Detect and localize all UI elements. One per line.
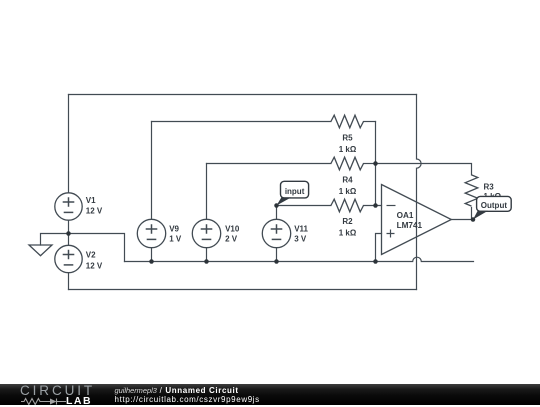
ground symbol	[29, 245, 52, 256]
resistor R5 body	[331, 115, 364, 128]
voltage source V1 body	[55, 193, 82, 220]
svg-text:R3: R3	[484, 182, 495, 191]
node V1-V2 junction	[66, 231, 71, 236]
wire R5 left lead	[152, 121, 331, 123]
CircuitLab logo schematic line (resistor + diode)	[21, 397, 67, 405]
wire R2 left lead	[277, 205, 331, 207]
svg-text:LM741: LM741	[397, 221, 423, 230]
wire R5 right lead	[364, 121, 376, 123]
wire bottom supply rail	[69, 289, 417, 291]
footer author / title line	[115, 386, 239, 395]
wire non-inverting input to rail	[376, 234, 382, 262]
voltage source V2 body	[55, 245, 82, 272]
wire V10 top lead	[206, 164, 208, 220]
voltage source V10 body	[192, 219, 220, 247]
node output junction	[471, 217, 476, 222]
wire V11 bottom lead	[276, 248, 278, 262]
flag input	[277, 181, 309, 205]
wire V9 top lead	[151, 122, 153, 220]
CircuitLab logo LAB	[66, 395, 92, 407]
node op-amp plus on rail	[373, 259, 378, 264]
node R4 right junction	[373, 161, 378, 166]
wire R2 right lead to inverting input	[364, 205, 382, 207]
svg-text:OA1: OA1	[397, 211, 414, 220]
svg-text:12 V: 12 V	[86, 261, 103, 270]
footer bar	[0, 384, 540, 405]
svg-text:1 kΩ: 1 kΩ	[339, 187, 357, 196]
wire bottom node rail with hop	[125, 257, 474, 261]
wire V1 top lead	[68, 95, 70, 193]
wire R4 right lead	[364, 163, 376, 165]
resistor R2 body	[331, 199, 364, 212]
node V9 bottom junction	[149, 259, 154, 264]
svg-text:input: input	[285, 187, 305, 196]
node R2 right junction	[373, 203, 378, 208]
wire summing junction vertical	[375, 122, 377, 206]
wire ground branch	[41, 234, 69, 246]
wire V1-V2 junction segment	[68, 220, 70, 245]
wire top supply rail	[69, 94, 417, 96]
CircuitLab logo wordmark	[20, 383, 95, 398]
voltage source V9 body	[137, 219, 165, 247]
op-amp inverting input marker	[387, 205, 396, 207]
svg-text:V10: V10	[225, 225, 240, 234]
svg-text:R4: R4	[342, 176, 353, 185]
voltage source V11 body	[262, 219, 290, 247]
op-amp non-inverting input marker	[387, 230, 395, 238]
flag Output	[473, 196, 511, 219]
wire V10 bottom lead	[206, 248, 208, 262]
node input (V11 top)	[274, 203, 279, 208]
svg-text:R2: R2	[342, 217, 353, 226]
wire op-amp output	[451, 219, 473, 221]
resistor R4 body	[331, 157, 364, 170]
wire V11 top stub / input node	[276, 206, 278, 220]
node V10 bottom junction	[204, 259, 209, 264]
wire R4 left lead	[207, 163, 331, 165]
svg-text:1 kΩ: 1 kΩ	[339, 228, 357, 237]
wire right supply vertical	[417, 95, 422, 290]
node V11 bottom junction	[274, 259, 279, 264]
svg-text:2 V: 2 V	[225, 234, 238, 243]
wire feedback to R3 top with hop	[376, 164, 472, 175]
svg-text:12 V: 12 V	[86, 207, 103, 216]
op-amp OA1 body	[382, 185, 452, 255]
svg-text:3 V: 3 V	[294, 234, 307, 243]
footer url line	[115, 395, 260, 404]
wire V9 bottom lead	[151, 248, 153, 262]
svg-text:V11: V11	[294, 225, 308, 234]
resistor R3 body	[465, 175, 478, 206]
svg-text:V2: V2	[86, 251, 96, 260]
svg-text:1 kΩ: 1 kΩ	[339, 145, 357, 154]
svg-text:Output: Output	[481, 201, 508, 210]
wire V2 bottom lead	[68, 273, 70, 290]
wire R3 bottom lead	[471, 208, 473, 220]
svg-text:V9: V9	[169, 225, 179, 234]
wire junction to bottom rail link	[69, 234, 125, 262]
svg-text:V1: V1	[86, 196, 96, 205]
svg-text:1 V: 1 V	[169, 234, 182, 243]
svg-text:R5: R5	[342, 134, 353, 143]
